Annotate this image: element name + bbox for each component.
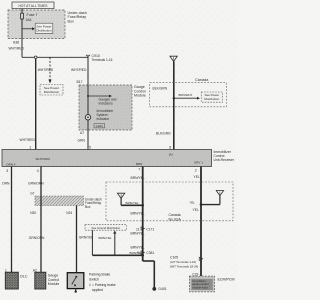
connector C171 (pin 11) <box>136 227 154 232</box>
svg-text:module input: module input <box>192 285 208 289</box>
svg-text:See Ground Distribution: See Ground Distribution <box>91 226 120 230</box>
dashed reference wire to power distribution <box>40 57 63 95</box>
svg-text:Module: Module <box>48 282 60 286</box>
svg-text:Switch: Switch <box>89 278 99 282</box>
svg-text:4: 4 <box>37 169 39 173</box>
reference arrow to power distribution (canada) <box>174 92 223 102</box>
svg-text:Fuse 7: Fuse 7 <box>27 13 38 17</box>
svg-text:WHT/GRN: WHT/GRN <box>36 157 50 161</box>
wire WHT/RED to gauge control module B17 <box>71 57 88 85</box>
svg-text:BLK/GRN: BLK/GRN <box>153 87 168 91</box>
svg-text:No USA: No USA <box>169 217 182 221</box>
svg-text:C171: C171 <box>146 228 154 232</box>
svg-text:5: 5 <box>89 145 91 149</box>
see power distribution reference (in fuse box) <box>22 23 53 33</box>
svg-text:ORN 4: ORN 4 <box>6 162 16 166</box>
ground G401 <box>152 287 166 291</box>
wire WHT/RED from fuse <box>9 39 25 58</box>
svg-text:Distribution: Distribution <box>44 90 60 94</box>
svg-text:applied: applied <box>92 288 103 292</box>
svg-text:Indicators: Indicators <box>99 102 114 106</box>
svg-text:(M/T Terminals 18-24): (M/T Terminals 18-24) <box>170 264 198 268</box>
wire BLK/GRN from antenna to pin 6 <box>153 62 174 150</box>
svg-text:WHT/RED: WHT/RED <box>71 68 87 72</box>
svg-text:WHT/RED: WHT/RED <box>9 47 25 51</box>
svg-text:C381: C381 <box>146 251 154 255</box>
svg-text:(A/T Terminals 1-16): (A/T Terminals 1-16) <box>170 260 196 264</box>
svg-text:Indicator: Indicator <box>97 117 111 121</box>
svg-text:A36: A36 <box>13 41 19 45</box>
svg-text:7: 7 <box>138 168 140 172</box>
svg-text:YEL: YEL <box>189 200 195 204</box>
svg-text:WHT/RED: WHT/RED <box>20 138 36 142</box>
node: canada branch junction <box>173 97 175 99</box>
svg-text:YEL: YEL <box>194 175 200 179</box>
wire BRN/YEL (pin 7) <box>131 167 145 262</box>
svg-text:(LED): (LED) <box>96 124 103 128</box>
svg-text:N30: N30 <box>30 211 36 215</box>
svg-text:(A): (A) <box>169 152 173 156</box>
svg-text:BRN/YEL: BRN/YEL <box>131 245 145 249</box>
hot-at-all-times label box <box>12 2 54 9</box>
svg-text:BRN/WHT: BRN/WHT <box>179 93 193 97</box>
wire WHT/RED to immobilizer pin 1 <box>20 59 54 150</box>
svg-text:BRN: BRN <box>136 162 142 166</box>
wire GRN/ORN to gauge module (pin 4) <box>28 167 45 273</box>
branch wire to left antenna <box>121 198 144 206</box>
svg-text:1 = Parking brake: 1 = Parking brake <box>89 283 116 287</box>
svg-text:Unit-Receiver: Unit-Receiver <box>214 158 235 162</box>
svg-text:BRN/YEL: BRN/YEL <box>131 232 145 236</box>
svg-text:GRN/ORN: GRN/ORN <box>29 236 45 240</box>
svg-text:C105: C105 <box>170 255 178 259</box>
svg-text:Box: Box <box>68 19 75 23</box>
svg-text:BRN/YEL: BRN/YEL <box>99 236 113 240</box>
wire GRN to immobilizer pin 5 <box>78 120 92 150</box>
wire YEL (pin 2) <box>193 167 202 277</box>
wire ORN to DLC (pin 3) <box>2 167 12 273</box>
wire BRN/YEL jog to G401 <box>143 261 155 288</box>
svg-text:9: 9 <box>137 251 139 255</box>
antenna symbol (right, canada) <box>216 191 223 196</box>
svg-text:G401: G401 <box>158 287 167 291</box>
DLC connector <box>5 269 28 289</box>
svg-text:Box: Box <box>85 205 91 209</box>
svg-text:BLK/GRN: BLK/GRN <box>156 132 171 136</box>
svg-text:B17: B17 <box>77 80 83 84</box>
under-dash fuse/relay box (dashed) <box>8 10 87 39</box>
wire inside module <box>87 85 89 115</box>
svg-text:Distribution: Distribution <box>36 28 52 32</box>
immobilizer control unit-receiver (bar) <box>2 150 235 167</box>
gauge control module (top, dashed stippled box) <box>79 85 146 130</box>
connector C381 (pin 9) <box>137 251 154 255</box>
svg-text:6: 6 <box>169 145 171 149</box>
canada option box (dashed) <box>150 78 227 107</box>
connector C105 on YEL wire <box>170 255 203 268</box>
svg-text:3: 3 <box>6 169 8 173</box>
parking brake switch <box>67 272 115 293</box>
svg-text:1: 1 <box>29 145 31 149</box>
svg-text:GRN/YEL: GRN/YEL <box>79 236 94 240</box>
svg-text:15A: 15A <box>26 18 33 22</box>
antenna symbol (top right) <box>170 56 177 61</box>
svg-text:11: 11 <box>136 228 140 232</box>
svg-text:BRN/YEL: BRN/YEL <box>131 212 145 216</box>
arrow to gauges and indicators <box>88 95 117 106</box>
svg-text:Parking Brake: Parking Brake <box>89 272 110 276</box>
svg-text:A7: A7 <box>80 131 84 135</box>
svg-text:G7: G7 <box>30 192 34 196</box>
svg-text:GRN/ORN: GRN/ORN <box>28 182 44 186</box>
svg-text:YEL: YEL <box>193 208 199 212</box>
svg-text:DLC: DLC <box>20 275 28 279</box>
bus wire horizontal <box>22 56 88 59</box>
svg-text:Module: Module <box>134 93 146 97</box>
connector C910 <box>86 54 112 62</box>
svg-text:GRY 1: GRY 1 <box>194 160 203 164</box>
antenna symbol (left, canada) <box>117 193 124 198</box>
svg-text:ECM/PCM: ECM/PCM <box>218 277 235 281</box>
svg-text:Canada: Canada <box>195 78 209 82</box>
svg-text:BRN/YEL: BRN/YEL <box>126 201 140 205</box>
gauge control module (bottom) <box>33 269 60 289</box>
svg-text:Terminals 1-16: Terminals 1-16 <box>92 58 113 62</box>
svg-text:HOT AT ALL TIMES: HOT AT ALL TIMES <box>19 4 49 8</box>
svg-text:N24: N24 <box>66 211 72 215</box>
see ground distribution reference box <box>85 225 127 231</box>
svg-text:Distribution: Distribution <box>204 97 219 101</box>
ECM/PCM box <box>189 272 234 292</box>
fuse F7 15A <box>21 9 38 39</box>
svg-text:ORN: ORN <box>2 182 10 186</box>
ground reference branch wires <box>92 230 144 256</box>
svg-text:GRN: GRN <box>78 138 86 142</box>
svg-text:2: 2 <box>195 169 197 173</box>
wire GRN/YEL to parking brake switch <box>77 206 94 273</box>
branch wire to right antenna <box>189 196 220 206</box>
immobilizer system indicator lamp <box>85 109 114 128</box>
svg-text:BRN/YEL: BRN/YEL <box>131 176 145 180</box>
under-dash fuse/relay box pass-through connector <box>30 192 102 215</box>
svg-text:WHT/RED: WHT/RED <box>38 68 54 72</box>
canada: no usa dashed region <box>106 182 233 221</box>
